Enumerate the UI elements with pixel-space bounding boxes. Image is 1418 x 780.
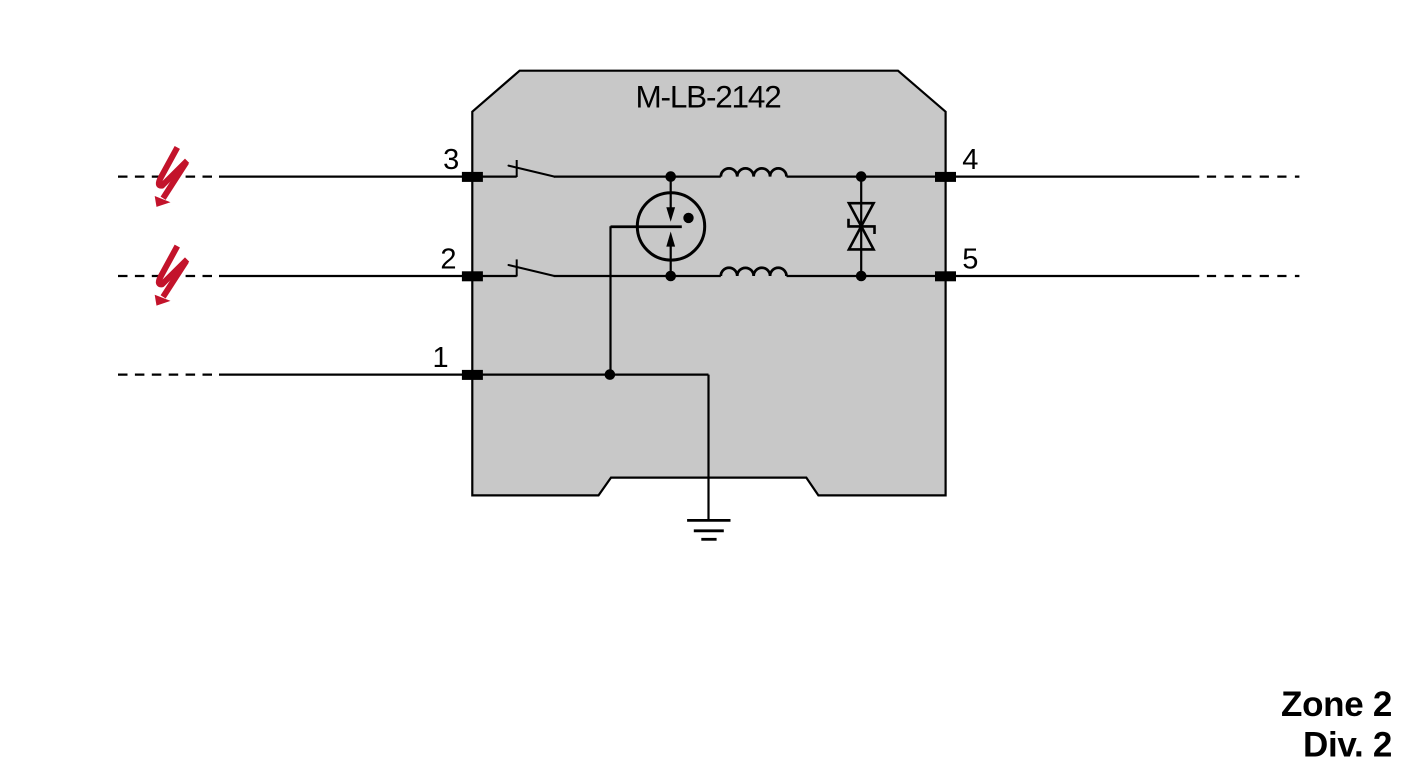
svg-text:2: 2 — [440, 244, 456, 276]
terminal 3 — [462, 172, 483, 182]
junction dot line3/TVS — [856, 171, 867, 182]
TVS diode vertical wire — [860, 177, 862, 276]
junction dot line1 — [605, 369, 616, 380]
wire line 2 middle — [554, 275, 721, 277]
wire line 3 right — [787, 176, 1200, 178]
wire line 2 solid left — [219, 275, 517, 277]
terminal 1 — [462, 370, 483, 380]
GDT top electrode wire — [670, 177, 672, 209]
switch F2 blade — [509, 265, 555, 276]
gas discharge tube GDT circle — [637, 193, 704, 260]
inductor L1 — [721, 168, 787, 176]
wire line 2 dashed left — [118, 275, 215, 277]
inductor L2 — [721, 268, 787, 276]
module body M-LB-2142 — [472, 71, 945, 496]
junction dot line2/TVS — [856, 271, 867, 282]
TVS bottom triangle — [849, 226, 874, 249]
GDT top arrowhead — [666, 207, 675, 222]
wire line 3 solid left — [219, 176, 517, 178]
GDT middle electrode bar — [611, 225, 682, 228]
wire line 2 dashed right — [1207, 275, 1300, 277]
wire line 1 dashed left — [118, 374, 215, 376]
switch F1 blade — [509, 166, 555, 177]
switch F2 tick — [516, 259, 518, 276]
junction dot line2/GDT — [665, 271, 676, 282]
TVS zener bar — [849, 219, 875, 234]
surge arrow line 2 — [155, 246, 187, 306]
GDT inner dot — [683, 213, 693, 223]
wire line 1 solid — [219, 374, 709, 376]
switch F1 tick — [516, 160, 518, 177]
GDT bottom arrowhead — [666, 232, 675, 247]
terminal 4 — [935, 172, 956, 182]
wire ground drop — [707, 375, 709, 520]
svg-text:M-LB-2142: M-LB-2142 — [635, 79, 780, 115]
wire line 3 dashed left — [118, 176, 215, 178]
wire line 3 dashed right — [1207, 176, 1300, 178]
svg-text:1: 1 — [433, 342, 449, 374]
svg-text:Zone 2: Zone 2 — [1281, 685, 1392, 724]
wire GDT middle to node — [609, 226, 611, 374]
svg-text:Div. 2: Div. 2 — [1303, 726, 1392, 765]
svg-text:4: 4 — [962, 144, 978, 176]
svg-text:5: 5 — [962, 244, 978, 276]
junction dot line3/GDT — [665, 171, 676, 182]
wire line 2 right — [787, 275, 1200, 277]
ground bar 3 — [701, 538, 716, 541]
ground bar 2 — [694, 529, 724, 532]
wire line 3 middle — [554, 176, 721, 178]
TVS top triangle — [849, 203, 874, 226]
terminal 5 — [935, 271, 956, 281]
ground bar 1 — [687, 519, 730, 522]
terminal 2 — [462, 271, 483, 281]
svg-text:3: 3 — [443, 144, 459, 176]
GDT bottom electrode wire — [670, 245, 672, 276]
surge arrow line 3 — [155, 147, 187, 207]
